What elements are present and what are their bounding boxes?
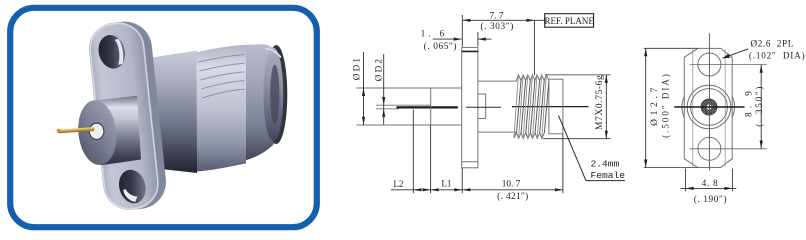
3D render: front cylinder face [75, 98, 119, 167]
svg-text:10. 7: 10. 7 [502, 179, 521, 189]
interface end section [549, 79, 563, 134]
centerline through threads [512, 106, 589, 108]
photo panel blue rounded frame [10, 8, 317, 227]
front view: horizontal centerline [674, 106, 744, 108]
3D render: flange plate front face [86, 20, 161, 213]
3D render: gold contact pin [57, 127, 95, 133]
front view: top hole centerline [690, 64, 767, 66]
svg-text:(.102″ DIA): (.102″ DIA) [749, 51, 806, 61]
front view: mounting hole bottom [698, 137, 721, 160]
svg-text:(. 190″): (. 190″) [694, 194, 727, 205]
dimension 12.7 line [644, 48, 647, 167]
side view: pin bottom extension line [376, 108, 399, 110]
thread spec M7X0.75-6g extension lines [543, 75, 611, 139]
svg-text:L2: L2 [393, 179, 403, 189]
svg-text:(.500″ DIA): (.500″ DIA) [661, 72, 671, 138]
label L2 [393, 179, 403, 189]
dimension 1.6 extension ticks [462, 15, 478, 47]
svg-text:7. 7: 7. 7 [490, 12, 504, 22]
thread spec dimension line [605, 75, 608, 139]
centerline at flange [466, 106, 501, 108]
svg-text:ØD1: ØD1 [351, 56, 361, 80]
label L1 [441, 178, 451, 188]
bottom dimension chain line [391, 188, 563, 191]
barrel outline [478, 81, 516, 132]
side view: pin top edge line [376, 104, 431, 106]
front view: interface outer circles [687, 85, 731, 129]
svg-text:(. 350″): (. 350″) [754, 85, 764, 127]
front view: dielectric hatched circle [701, 99, 717, 115]
3D render: sleeve thread grooves [199, 55, 245, 99]
front view: mounting hole top [698, 53, 721, 76]
dimension 4.8 line [681, 179, 737, 205]
front view: flange bevel lines [693, 50, 725, 167]
front view: bottom hole centerline [690, 148, 767, 150]
dimension 7.7 [462, 12, 544, 32]
svg-text:1. 6: 1. 6 [421, 29, 448, 39]
svg-text:(. 065″): (. 065″) [424, 41, 457, 52]
3D render: threaded sleeve [197, 45, 247, 172]
reference plane line [533, 20, 535, 75]
label M7X0.75-6g [595, 75, 605, 130]
leader 2.4mm Female [559, 116, 626, 181]
svg-text:Ø2.6 2PL: Ø2.6 2PL [751, 38, 794, 48]
svg-text:(. 303″): (. 303″) [480, 21, 513, 32]
svg-text:M7X0.75-6g: M7X0.75-6g [595, 75, 605, 130]
bottom extension lines [413, 110, 563, 194]
3D render: rear body cylinder [148, 51, 197, 174]
front view: flange outline [684, 48, 732, 167]
neck step behind flange [478, 94, 486, 119]
label 12.7 [649, 72, 670, 138]
dimension 1.6 [421, 29, 492, 52]
svg-text:8. 9: 8. 9 [744, 87, 754, 117]
svg-text:2.4mm: 2.4mm [591, 158, 620, 169]
front body outline [430, 88, 432, 125]
dimension line for D2 [382, 54, 385, 125]
contact pin (thick line) [397, 106, 458, 108]
flange (side view) [462, 47, 478, 167]
svg-text:ØD2: ØD2 [373, 57, 383, 81]
svg-text:Ø12.7: Ø12.7 [649, 84, 660, 126]
svg-text:(. 421″): (. 421″) [497, 191, 528, 202]
label D1 [351, 56, 361, 80]
svg-text:4. 8: 4. 8 [702, 179, 719, 189]
diameter D1 extension lines [357, 88, 462, 125]
thread profile (zigzag) [514, 75, 549, 139]
svg-text:L1: L1 [441, 178, 451, 188]
3D render: front cylinder barrel [96, 96, 141, 165]
3D render: flange top hole [94, 31, 129, 72]
3D render: flange bottom hole [115, 166, 150, 207]
3D render: nose section [246, 44, 286, 160]
dimension 10.7 [497, 179, 528, 202]
front view: nut silhouette arcs [682, 96, 735, 117]
label 8.9 [744, 85, 765, 127]
front view: vertical centerline [708, 33, 710, 170]
dimension line for D1 [362, 52, 365, 125]
REF. PLANE label box [545, 14, 595, 28]
leader 2.6 2PL [723, 38, 806, 60]
3D render: flange plate side thickness [93, 19, 168, 212]
svg-text:REF. PLANE: REF. PLANE [545, 16, 595, 26]
dimension 4.8 extension lines [686, 169, 733, 192]
dimension 8.9 line [760, 65, 763, 149]
3D render: insulator white circle [89, 123, 103, 139]
3D render: nose end cap rim [264, 45, 288, 144]
svg-text:Female: Female [591, 170, 626, 181]
label D2 [373, 57, 383, 81]
dimension 12.7 extension lines [644, 48, 698, 167]
